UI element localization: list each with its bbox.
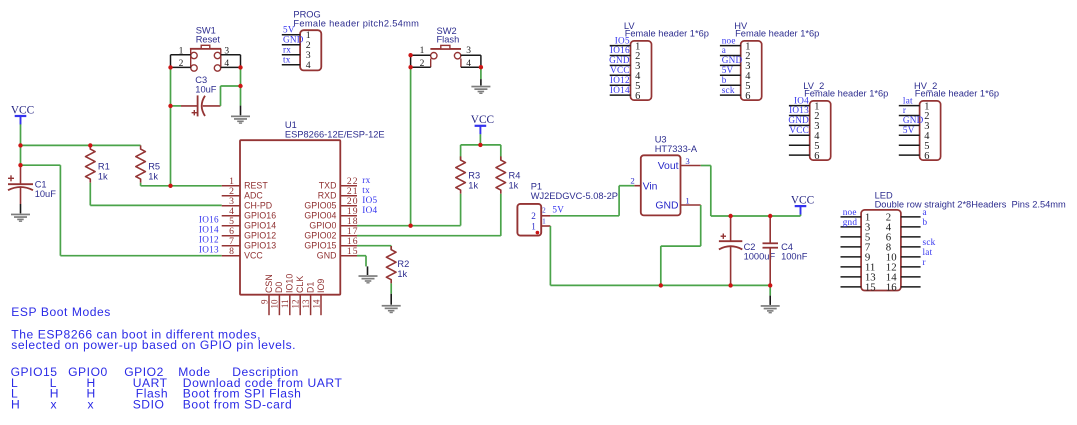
ground (main): [761, 305, 780, 313]
junction: [238, 65, 242, 69]
svg-text:SDIO: SDIO: [133, 398, 165, 412]
power flag VCC (left): [11, 104, 34, 124]
junction: [408, 65, 412, 69]
svg-text:1k: 1k: [148, 171, 158, 181]
pin 12 of LED: [886, 261, 921, 273]
svg-text:GND: GND: [903, 115, 924, 125]
svg-text:1: 1: [179, 46, 184, 56]
wire: [660, 246, 662, 285]
wire: [480, 67, 482, 79]
wire: [480, 79, 482, 85]
svg-text:Female header 1*6p: Female header 1*6p: [735, 29, 819, 39]
svg-text:5V: 5V: [283, 25, 295, 35]
svg-text:1k: 1k: [98, 171, 108, 181]
wire: [460, 145, 462, 160]
wire: [140, 183, 142, 186]
regulator U3 HT7333-A: [641, 155, 681, 215]
capacitor C4: [763, 216, 779, 285]
pin 20 (GPIO05) of U1: [304, 196, 358, 211]
pin 1 of LED: [841, 211, 871, 223]
pin 1 of LV: [610, 41, 641, 52]
svg-text:C2: C2: [744, 242, 756, 252]
svg-text:GND: GND: [788, 115, 809, 125]
svg-text:Double row straight 2*8Headers: Double row straight 2*8Headers Pins 2.54…: [875, 199, 1066, 209]
pin 2 (ADC) of U1: [222, 186, 264, 201]
junction: [479, 65, 483, 69]
pin 9 of LED: [841, 251, 871, 263]
svg-text:2: 2: [630, 176, 634, 186]
wire: [769, 285, 771, 295]
pin 2 of LED: [886, 211, 921, 223]
svg-text:noe: noe: [843, 207, 857, 217]
svg-text:IO5: IO5: [615, 35, 630, 45]
junction: [88, 143, 92, 147]
svg-text:16: 16: [886, 281, 897, 293]
junction: [18, 143, 22, 147]
pin 3 of PROG: [282, 50, 311, 61]
svg-text:R4: R4: [509, 171, 521, 181]
pin 14 (IO9) of U1: [311, 279, 326, 316]
pin 2 (Vin) of U3: [630, 176, 657, 193]
pin 2 of SW1: [171, 55, 191, 69]
svg-text:6: 6: [745, 91, 750, 102]
svg-text:ESP Boot Modes: ESP Boot Modes: [11, 305, 111, 319]
svg-text:VCC: VCC: [471, 114, 494, 126]
svg-text:b: b: [923, 217, 928, 227]
pin 3 of LV: [610, 61, 641, 72]
svg-text:R2: R2: [397, 259, 409, 269]
svg-text:sck: sck: [722, 85, 735, 95]
pin 1 of HV_2: [899, 101, 930, 112]
wire: [220, 86, 222, 106]
IC U1 ESP8266-12E: [240, 140, 340, 295]
wire: [500, 194, 502, 236]
svg-text:D0: D0: [274, 282, 284, 293]
resistor R2: [386, 246, 396, 283]
wire: [90, 204, 221, 206]
pin 4 of SW2: [461, 55, 481, 69]
svg-text:C3: C3: [195, 75, 207, 85]
pin 11 (IO10) of U1: [280, 274, 295, 316]
svg-text:GPIO12: GPIO12: [244, 231, 276, 241]
pin 8 of LED: [886, 241, 921, 253]
wire: [20, 204, 22, 213]
svg-text:IO13: IO13: [199, 244, 219, 254]
power flag VCC (center): [471, 114, 494, 134]
wire: [619, 185, 634, 187]
svg-text:10uF: 10uF: [35, 189, 57, 199]
pin 2 of P1: [531, 207, 550, 222]
wire: [59, 165, 61, 256]
svg-text:noe: noe: [722, 35, 736, 45]
pin 4 of HV: [720, 71, 751, 82]
svg-text:GND: GND: [283, 35, 304, 45]
pin 3 of LED: [841, 221, 871, 233]
junction: [168, 184, 172, 188]
pin 5 of LV_2: [789, 141, 820, 152]
pin 9 (CSN) of U1: [259, 274, 274, 315]
wire: [357, 245, 391, 247]
svg-text:GPIO04: GPIO04: [304, 211, 336, 221]
note table row UART: [11, 376, 342, 390]
pin 19 (GPIO04) of U1: [304, 206, 358, 221]
power flag VCC (right): [791, 195, 814, 215]
pin 22 (TXD) of U1: [319, 176, 359, 191]
svg-text:IO4: IO4: [794, 95, 809, 105]
svg-text:IO16: IO16: [199, 214, 219, 224]
wire: [550, 215, 619, 217]
junction: [768, 214, 772, 218]
svg-text:HT7333-A: HT7333-A: [655, 144, 698, 154]
svg-text:1k: 1k: [509, 180, 519, 190]
svg-text:IO4: IO4: [362, 205, 377, 215]
svg-text:H: H: [11, 398, 20, 412]
pin 1 of PROG: [282, 30, 311, 41]
pin 4 of LV: [610, 71, 641, 82]
svg-text:R3: R3: [468, 171, 480, 181]
svg-text:r: r: [923, 257, 926, 267]
svg-text:100nF: 100nF: [781, 251, 808, 261]
svg-text:1: 1: [420, 46, 425, 56]
svg-text:13: 13: [301, 299, 311, 309]
resistor R1: [86, 145, 96, 182]
svg-text:lat: lat: [923, 247, 933, 257]
svg-text:5V: 5V: [722, 65, 734, 75]
wire: [800, 215, 802, 217]
wire: [390, 246, 392, 250]
svg-text:15: 15: [347, 246, 359, 257]
svg-text:GND: GND: [655, 200, 678, 211]
wire: [701, 165, 711, 167]
svg-text:2: 2: [179, 59, 184, 69]
pin 11 of LED: [841, 261, 876, 273]
svg-text:10uF: 10uF: [195, 85, 217, 95]
pin 13 (D1) of U1: [301, 282, 316, 316]
wire: [410, 67, 412, 225]
wire: [240, 86, 242, 106]
svg-text:C4: C4: [781, 242, 793, 252]
svg-text:GPIO0: GPIO0: [309, 221, 336, 231]
svg-text:rx: rx: [362, 175, 370, 185]
svg-text:1: 1: [542, 218, 546, 226]
switch SW2: [430, 45, 461, 67]
junction: [536, 231, 540, 235]
junction: [408, 224, 412, 228]
pin 1 (REST) of U1: [222, 176, 269, 191]
pin 1 of SW1: [171, 46, 191, 56]
pin 6 of HV_2: [899, 151, 930, 162]
pin 8 (VCC) of U1: [222, 246, 264, 261]
svg-text:gnd: gnd: [843, 217, 858, 227]
svg-text:lat: lat: [903, 95, 913, 105]
svg-text:12: 12: [291, 300, 301, 309]
svg-text:IO12: IO12: [610, 75, 630, 85]
svg-text:6: 6: [635, 91, 640, 102]
pin 2 of HV_2: [899, 111, 930, 122]
wire: [700, 205, 702, 246]
svg-text:R1: R1: [98, 161, 110, 171]
pin 4 of LED: [886, 221, 921, 233]
svg-text:CSN: CSN: [264, 274, 274, 293]
svg-text:IO5: IO5: [362, 195, 377, 205]
pin 1 of HV: [720, 41, 751, 52]
svg-text:14: 14: [311, 299, 321, 309]
pin 3 of SW2: [461, 46, 481, 56]
junction: [408, 53, 412, 57]
wire: [549, 226, 551, 285]
pin 13 of LED: [841, 271, 876, 283]
svg-text:GND: GND: [722, 55, 743, 65]
svg-text:11: 11: [280, 300, 290, 309]
pin 7 of LED: [841, 241, 871, 253]
wire: [240, 67, 242, 86]
pin 2 of LV: [610, 51, 641, 62]
svg-text:10: 10: [270, 299, 280, 309]
svg-text:2: 2: [531, 211, 536, 221]
svg-text:IO12: IO12: [199, 234, 219, 244]
wire: [89, 183, 91, 206]
wire: [21, 164, 61, 166]
connector P1: [517, 204, 541, 236]
pin 17 (GPIO02) of U1: [304, 226, 358, 241]
wire: [240, 106, 242, 116]
pin 6 of HV: [720, 91, 751, 102]
wire: [390, 283, 392, 293]
svg-text:Boot from SD-card: Boot from SD-card: [183, 398, 292, 412]
svg-text:GND: GND: [609, 55, 630, 65]
wire: [461, 144, 501, 146]
pin 21 (RXD) of U1: [318, 186, 359, 201]
svg-text:RXD: RXD: [318, 191, 337, 201]
note table header row: [11, 365, 299, 379]
pin 4 (GPIO16) of U1: [222, 206, 277, 221]
pin 2 of HV: [720, 51, 751, 62]
svg-text:CLK: CLK: [295, 276, 305, 293]
junction: [168, 104, 172, 108]
junction: [728, 283, 732, 287]
pin 6 of LV_2: [789, 151, 820, 162]
switch SW1: [190, 45, 221, 71]
svg-text:ESP8266-12E/ESP-12E: ESP8266-12E/ESP-12E: [285, 129, 385, 139]
svg-text:Flash: Flash: [437, 35, 460, 45]
wire: [357, 235, 501, 237]
connector LED: [861, 210, 901, 291]
svg-text:tx: tx: [362, 185, 370, 195]
svg-text:6: 6: [814, 151, 819, 162]
connector LV_2: [810, 101, 831, 160]
wire: [357, 225, 461, 227]
svg-text:R5: R5: [148, 161, 160, 171]
svg-text:a: a: [923, 207, 927, 217]
wire: [460, 194, 462, 226]
svg-text:Vout: Vout: [658, 161, 679, 172]
resistor R3: [456, 156, 466, 193]
svg-text:IO14: IO14: [199, 224, 219, 234]
svg-text:8: 8: [229, 246, 234, 257]
connector LV: [631, 41, 652, 100]
svg-text:GPIO13: GPIO13: [244, 241, 276, 251]
svg-text:D1: D1: [305, 282, 315, 293]
svg-text:5V: 5V: [552, 205, 564, 215]
svg-text:4: 4: [306, 60, 311, 71]
wire: [661, 245, 701, 247]
pin 14 of LED: [886, 271, 921, 283]
junction: [728, 214, 732, 218]
svg-text:15: 15: [865, 281, 876, 293]
svg-text:sck: sck: [923, 237, 936, 247]
junction: [659, 283, 663, 287]
wire: [170, 67, 172, 185]
svg-text:GPIO14: GPIO14: [244, 221, 276, 231]
wire: [710, 166, 712, 217]
junction: [168, 65, 172, 69]
wire: [357, 255, 366, 257]
pin 5 of HV_2: [899, 141, 930, 152]
wire: [60, 255, 221, 257]
wire: [141, 185, 222, 187]
junction: [768, 283, 772, 287]
svg-text:Female header 1*6p: Female header 1*6p: [804, 89, 888, 99]
junction: [478, 143, 482, 147]
svg-text:ADC: ADC: [244, 191, 263, 201]
wire: [221, 85, 241, 87]
svg-text:VCC: VCC: [789, 125, 809, 135]
pin 4 of SW1: [221, 55, 241, 69]
pin 4 of HV_2: [899, 131, 930, 142]
svg-text:r: r: [903, 105, 906, 115]
pin 2 of SW2: [411, 55, 431, 69]
svg-text:CH-PD: CH-PD: [244, 201, 272, 211]
pin 2 of LV_2: [789, 111, 820, 122]
svg-text:3: 3: [224, 46, 229, 56]
pin 3 (Vout) of U3: [658, 156, 701, 172]
svg-text:3: 3: [685, 156, 690, 166]
resistor R5: [136, 145, 146, 182]
svg-text:4: 4: [224, 59, 229, 69]
pin 3 of HV_2: [899, 121, 930, 132]
note table row Flash: [11, 387, 301, 401]
ground (C1): [11, 214, 30, 222]
pin 4 of LV_2: [789, 131, 820, 142]
svg-text:P1: P1: [531, 182, 542, 192]
pin 3 (CH-PD) of U1: [222, 196, 273, 211]
pin 3 of SW1: [221, 46, 241, 56]
pin 10 of LED: [886, 251, 921, 263]
svg-text:2: 2: [542, 207, 546, 215]
junction: [18, 163, 22, 167]
svg-text:1k: 1k: [468, 180, 478, 190]
svg-text:6: 6: [924, 151, 929, 162]
svg-text:IO14: IO14: [610, 85, 630, 95]
pin 5 (GPIO14) of U1: [222, 216, 277, 231]
pin 3 of HV: [720, 61, 751, 72]
wire: [20, 124, 22, 165]
svg-text:C1: C1: [35, 179, 47, 189]
pin 1 of SW2: [411, 46, 431, 56]
wire: [500, 145, 502, 160]
svg-text:rx: rx: [283, 45, 291, 55]
pin 5 of LV: [610, 81, 641, 92]
pin 15 (GND) of U1: [317, 246, 359, 261]
pin 5 of LED: [841, 231, 871, 243]
svg-text:VCC: VCC: [244, 251, 263, 261]
svg-text:VCC: VCC: [11, 104, 34, 116]
wire: [711, 215, 801, 217]
svg-text:Female header 1*6p: Female header 1*6p: [915, 89, 999, 99]
pin 2 of PROG: [282, 40, 311, 51]
wire: [550, 284, 770, 286]
capacitor C2: [719, 216, 742, 285]
svg-text:a: a: [722, 45, 726, 55]
wire: [479, 134, 481, 145]
svg-text:WJ2EDGVC-5.08-2P: WJ2EDGVC-5.08-2P: [531, 191, 618, 201]
svg-text:1: 1: [685, 195, 689, 205]
pin 16 (GPIO15) of U1: [304, 236, 358, 251]
pin 5 of HV: [720, 81, 751, 92]
wire: [390, 294, 392, 305]
svg-text:Vin: Vin: [643, 182, 658, 193]
svg-text:VCC: VCC: [791, 195, 814, 207]
svg-text:5V: 5V: [903, 125, 915, 135]
svg-text:IO13: IO13: [789, 105, 809, 115]
svg-text:GPIO02: GPIO02: [304, 231, 336, 241]
svg-text:VCC: VCC: [610, 65, 630, 75]
pin 7 (GPIO13) of U1: [222, 236, 277, 251]
pin 6 of LED: [886, 231, 921, 243]
wire: [618, 186, 620, 216]
wire: [367, 266, 369, 275]
svg-text:tx: tx: [283, 55, 291, 65]
pin 1 (GND) of U3: [655, 195, 700, 211]
svg-text:Reset: Reset: [196, 35, 221, 45]
svg-text:1k: 1k: [397, 269, 407, 279]
svg-text:GPIO16: GPIO16: [244, 211, 276, 221]
svg-text:U1: U1: [285, 120, 297, 130]
wire: [21, 144, 141, 146]
pin 15 of LED: [841, 281, 876, 293]
junction: [238, 84, 242, 88]
pin 1 of LV_2: [789, 101, 820, 112]
ground (R2): [382, 305, 401, 313]
svg-text:2: 2: [420, 59, 425, 69]
svg-text:Female header 1*6p: Female header 1*6p: [625, 29, 709, 39]
pin 4 of PROG: [282, 60, 311, 71]
svg-text:9: 9: [259, 299, 269, 304]
svg-text:b: b: [722, 75, 727, 85]
connector PROG: [300, 30, 321, 70]
svg-text:4: 4: [466, 59, 471, 69]
svg-text:GND: GND: [317, 251, 337, 261]
pin 10 (D0) of U1: [270, 282, 285, 316]
pin 1 of P1: [531, 218, 550, 232]
svg-text:IO16: IO16: [610, 45, 630, 55]
pin 18 (GPIO0) of U1: [309, 216, 358, 231]
pin 16 of LED: [886, 281, 921, 293]
pin 12 (CLK) of U1: [291, 276, 306, 316]
svg-text:x: x: [88, 398, 95, 412]
svg-text:IO10: IO10: [285, 274, 295, 293]
svg-text:TXD: TXD: [319, 181, 337, 191]
pin 6 (GPIO12) of U1: [222, 226, 277, 241]
connector HV: [741, 41, 762, 100]
capacitor C1: [8, 165, 33, 204]
pin 3 of LV_2: [789, 121, 820, 132]
ground (GND pin 15): [359, 275, 378, 283]
ground (SW2): [471, 86, 490, 94]
svg-text:x: x: [51, 398, 58, 412]
wire: [365, 256, 367, 267]
svg-text:REST: REST: [244, 181, 268, 191]
